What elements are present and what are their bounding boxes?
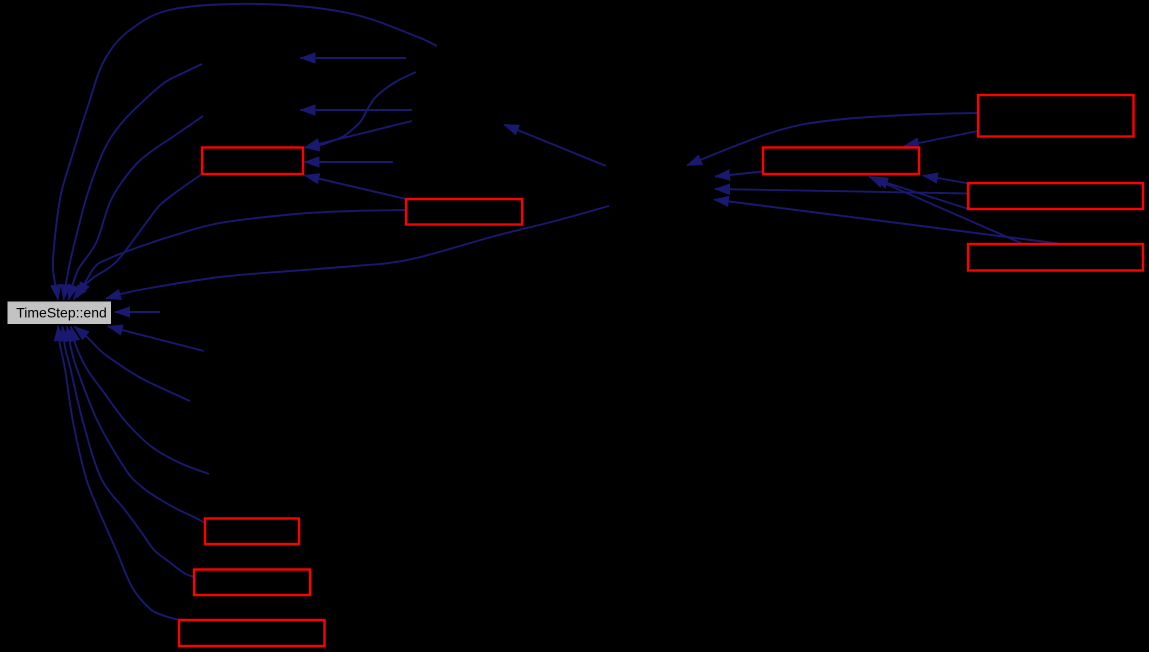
wire N9 from box E bottom-left to box D bottom — [873, 179, 970, 210]
node box I (red) — [179, 620, 325, 646]
wire R1 short horizontal into TimeStep::end right edge — [115, 311, 160, 313]
wire B5 from box I — [58, 326, 179, 620]
wire T3 — [69, 116, 204, 300]
node box D (red) — [763, 148, 919, 175]
node box C (red, two-line) — [978, 95, 1134, 137]
wire B2 — [71, 327, 209, 475]
wire S curve into box A top-right corner — [305, 72, 417, 148]
wire N2 from box C to box D top-right — [904, 131, 978, 146]
wire B1 — [75, 327, 191, 402]
wire BA from box B to box A bottom-right corner — [305, 175, 407, 199]
wire H3 horizontal into box A right edge — [305, 161, 394, 163]
wire T4 from box A to TimeStep::end — [74, 174, 203, 300]
wire H1 horizontal arrow y=58 — [301, 57, 407, 59]
wire N7 from box F top to middle node — [714, 200, 1058, 244]
wire R2 into TimeStep::end bottom-right corner — [108, 326, 204, 351]
wire T2 — [64, 64, 203, 300]
node box B (red) — [406, 199, 522, 225]
wire N5 from box F top to box D bottom — [869, 177, 1022, 244]
wire N1 curve from box C to middle node — [687, 113, 978, 166]
wire B3 from box G — [67, 327, 205, 524]
node box G (red) — [205, 519, 299, 545]
wire T6 long curve from middle node to TimeStep::end corner — [106, 206, 609, 299]
node box A (red) — [202, 148, 303, 175]
wire M1 from middle node up-left — [504, 125, 606, 167]
wire N4 from box E to middle node — [715, 189, 969, 194]
svg-text:TimeStep::end: TimeStep::end — [16, 305, 107, 321]
wire N6 from box E top-left to box D right edge — [923, 176, 969, 184]
wire DL diagonal into box A top-right corner — [305, 121, 413, 148]
wire N3 from box D to middle node — [715, 172, 763, 177]
node box E (red) — [968, 183, 1143, 209]
node box F (red) — [968, 244, 1143, 271]
wire B4 from box H — [63, 327, 195, 578]
node TimeStep::end (gray) — [7, 301, 112, 325]
node box H (red) — [194, 570, 310, 596]
wire T5 from box B to TimeStep::end — [78, 210, 407, 297]
wire H2 horizontal arrow y=110 — [301, 109, 413, 111]
wire T1 outer top curve — [53, 4, 437, 300]
